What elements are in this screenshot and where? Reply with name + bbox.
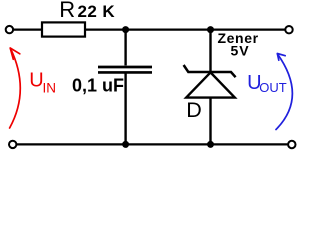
svg-text:IN: IN (43, 80, 57, 95)
svg-text:R: R (59, 0, 75, 22)
svg-text:22 K: 22 K (78, 2, 116, 21)
svg-text:D: D (186, 98, 202, 122)
svg-text:OUT: OUT (259, 80, 287, 95)
svg-text:0,1 uF: 0,1 uF (72, 76, 124, 96)
svg-text:5V: 5V (231, 43, 250, 59)
